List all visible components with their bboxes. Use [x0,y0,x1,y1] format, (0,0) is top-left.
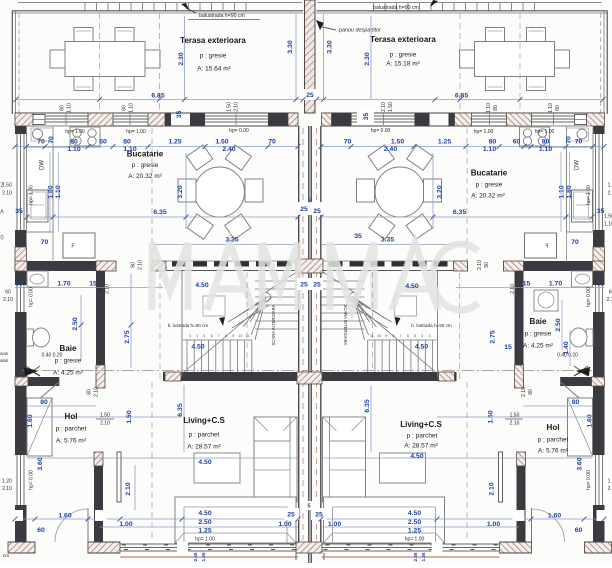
kitchen cabinet F [63,233,95,258]
upper stair flight treads behind beam [172,261,186,267]
svg-text:p : gresie: p : gresie [390,52,417,59]
svg-text:2.50: 2.50 [555,318,562,331]
svg-text:1.25: 1.25 [168,138,181,145]
svg-text:2.30: 2.30 [364,52,371,65]
kitchen chair top-right [225,145,251,170]
svg-text:1.20: 1.20 [608,478,612,484]
svg-text:80: 80 [121,105,127,111]
svg-text:1.80: 1.80 [47,185,54,198]
svg-text:6.35: 6.35 [453,209,466,216]
kitchen chair left [178,179,196,202]
north wall pier hatched 2 [148,113,165,126]
svg-text:Hol: Hol [547,423,560,432]
svg-text:Living+C.S: Living+C.S [183,416,225,425]
svg-text:1.60: 1.60 [27,414,34,427]
kitchen round table [195,167,245,217]
svg-text:hp= 0.00: hp= 0.00 [586,287,592,307]
svg-text:1.50: 1.50 [226,102,232,112]
svg-text:2.10: 2.10 [607,297,612,303]
bath washbasin counter [27,271,48,287]
hol fraction line [96,418,114,420]
svg-text:2.50: 2.50 [198,519,211,526]
mid band hatch block left of stairs [152,261,166,271]
svg-text:9: 9 [385,334,387,338]
svg-text:hp= 1.00: hp= 1.00 [405,536,425,542]
stair west boundary [181,271,183,377]
svg-text:70: 70 [268,138,276,145]
svg-text:4.50: 4.50 [191,343,204,350]
west wall segment below kitchen window [15,230,27,271]
party wall east leaf line [320,126,322,542]
svg-text:11: 11 [370,334,374,338]
north wall window 1 (kitchen) [45,115,90,117]
terrace balustrade top double line [12,10,303,12]
svg-text:4: 4 [196,334,198,338]
bath east wall hatch bottom [96,365,105,388]
svg-text:60: 60 [99,138,107,145]
svg-text:3.35: 3.35 [225,236,238,243]
bath door opening jambs [58,377,60,386]
watermark logo [152,243,478,310]
svg-text:A: 20.32 m²: A: 20.32 m² [471,193,505,200]
svg-text:3.30: 3.30 [287,40,294,53]
balustrade label arrow left [181,3,189,10]
left half geometry [8,3,303,558]
entry door opening [34,542,36,553]
svg-text:80: 80 [528,389,534,395]
dimension line living horizontal [27,457,298,459]
svg-text:p : parchet: p : parchet [56,426,87,433]
svg-text:1.60: 1.60 [586,414,593,427]
svg-text:p : gresie: p : gresie [200,53,227,60]
terrace chair bottom-left [74,77,93,91]
svg-text:60: 60 [513,138,521,145]
balustrade label arrow right [430,0,438,7]
dimension line terrace width [16,99,303,101]
svg-text:A: 20.32 m²: A: 20.32 m² [128,173,162,180]
svg-text:80: 80 [555,105,561,111]
svg-text:1.25: 1.25 [438,138,451,145]
party wall hatch at stair wall [297,372,322,384]
svg-text:hp= 0.00: hp= 0.00 [28,470,34,490]
kitchen sink [33,129,43,139]
terrace chair bottom-right [115,77,134,91]
svg-text:Terasa exterioara: Terasa exterioara [370,35,436,44]
svg-text:1.00: 1.00 [328,521,341,528]
svg-text:hp= 1.00: hp= 1.00 [474,129,494,135]
svg-text:3.60: 3.60 [37,457,44,470]
svg-text:15: 15 [504,344,512,351]
svg-text:80: 80 [572,399,580,406]
svg-text:Baie: Baie [530,317,547,326]
terrace left inner dashed line [18,13,20,113]
svg-text:2.30: 2.30 [178,52,185,65]
svg-text:1.10: 1.10 [486,103,492,113]
svg-text:2.10: 2.10 [93,387,99,397]
svg-text:60: 60 [37,527,45,534]
svg-text:8: 8 [393,334,395,338]
svg-text:hp= 1.00: hp= 1.00 [195,536,215,542]
svg-text:25: 25 [300,281,308,288]
dimension line kitchen interior width [27,216,298,218]
section cut dash-dot line [22,370,592,372]
svg-text:A: 15.64 m²: A: 15.64 m² [197,66,231,73]
south wall living window [120,543,298,545]
north wall band edges [15,112,298,114]
stub wall between hall and living [94,452,103,543]
svg-text:35: 35 [597,280,605,287]
bath right dim lines [561,300,563,350]
svg-text:90: 90 [484,262,490,268]
svg-text:hp= 0.00: hp= 0.00 [586,470,592,490]
dashed line kitchen axis [151,128,153,260]
north wall french door opening [205,115,268,117]
svg-text:1.00: 1.00 [487,521,500,528]
svg-text:Terasa exterioara: Terasa exterioara [180,36,246,45]
svg-text:2.50: 2.50 [408,519,421,526]
svg-text:b. lustrada h=90 cm: b. lustrada h=90 cm [168,323,209,328]
svg-text:15: 15 [523,280,531,287]
svg-text:1.50: 1.50 [100,412,110,418]
svg-text:80: 80 [40,399,48,406]
svg-text:4.50: 4.50 [195,282,208,289]
terrace chair top-right [115,28,134,42]
svg-text:70: 70 [48,136,55,144]
right half geometry mirrored [317,3,612,558]
south window sill dash marks [122,544,296,546]
svg-text:3.30: 3.30 [326,40,333,53]
svg-text:1.00: 1.00 [119,521,132,528]
svg-text:6: 6 [407,334,409,338]
svg-text:80: 80 [70,138,78,145]
svg-text:p : parchet: p : parchet [189,432,220,439]
svg-text:80: 80 [489,138,497,145]
svg-text:2.75: 2.75 [124,330,131,343]
svg-text:6.85: 6.85 [151,92,164,99]
north wall corner hatched block [15,113,33,126]
svg-text:A: 28.57 m²: A: 28.57 m² [187,444,221,451]
svg-text:6: 6 [211,334,213,338]
bath south wall hatch [15,377,28,386]
svg-text:80: 80 [59,105,65,111]
svg-text:3.20: 3.20 [436,185,443,198]
svg-text:2.10: 2.10 [125,482,132,495]
svg-text:DW: DW [40,160,46,170]
svg-text:2.40: 2.40 [222,146,235,153]
dimension line hol 1.50 [30,416,182,418]
svg-text:hp= 1.00: hp= 1.00 [586,185,592,205]
svg-text:hp= 0.00: hp= 0.00 [28,287,34,307]
red section trace below south wall [120,556,298,558]
svg-text:hp= 1.00: hp= 1.00 [65,129,85,135]
svg-text:10: 10 [238,334,242,338]
balustrade posts top [84,3,86,11]
svg-text:2.10: 2.10 [488,482,495,495]
vertical dim line living 6.35 [183,385,185,452]
svg-text:2.10: 2.10 [510,284,516,294]
dimension line bottom row 1 [15,518,298,520]
svg-text:35: 35 [15,280,23,287]
stair break lines [228,299,266,322]
svg-text:1.10: 1.10 [558,185,565,198]
coffee table [194,453,240,483]
svg-text:anis: anis [0,351,8,356]
svg-text:4.50: 4.50 [410,453,423,460]
svg-text:3.60: 3.60 [576,457,583,470]
stair tread numbers [189,334,431,338]
svg-text:60: 60 [575,527,583,534]
north wall gap with 35 [171,112,190,114]
svg-text:2.10: 2.10 [381,102,387,112]
svg-text:1.10: 1.10 [539,146,552,153]
svg-text:cm: cm [3,553,9,558]
svg-text:1.60: 1.60 [548,512,561,519]
svg-text:35: 35 [354,233,362,240]
kitchen chair right [245,179,263,202]
svg-text:1.50: 1.50 [510,412,520,418]
svg-text:2.50: 2.50 [413,552,418,561]
svg-text:1.25: 1.25 [408,527,421,534]
vertical dim line living 2.10 [134,465,136,510]
svg-text:80: 80 [493,105,499,111]
svg-text:80: 80 [542,138,550,145]
stair south wall hatch [165,372,181,381]
svg-text:1.25: 1.25 [201,552,206,561]
balustrada label underlines [188,19,260,21]
svg-text:70: 70 [37,138,45,145]
svg-text:p : gresie: p : gresie [55,358,82,365]
svg-text:Bucatarie: Bucatarie [471,169,508,178]
svg-text:35: 35 [363,113,370,121]
kitchen chair bottom-left [187,214,213,239]
stair direction arrow [219,317,225,326]
terrace divider wall panou despartitor [305,0,316,113]
bath south wall [15,377,59,386]
svg-text:Hol: Hol [65,412,78,421]
stair lower flight treads [186,340,188,372]
corridor dashed line [159,273,161,380]
svg-text:A: 5.76 m²: A: 5.76 m² [538,448,569,455]
stair landing rect [203,296,225,316]
svg-text:6.35: 6.35 [364,399,371,412]
svg-text:2.50: 2.50 [193,552,198,561]
party wall insulation dashed lines [302,128,304,540]
svg-text:35: 35 [15,208,23,215]
svg-text:1.10: 1.10 [548,103,554,113]
mid band bath top wall [15,261,96,271]
north wall window 2 [113,115,148,117]
svg-text:1.25: 1.25 [421,552,426,561]
stair south wall [163,372,298,381]
terrace chair left [50,50,65,68]
svg-text:1.25: 1.25 [198,527,211,534]
svg-text:1.50: 1.50 [608,182,612,188]
svg-text:70: 70 [575,138,583,145]
svg-text:4: 4 [421,334,423,338]
svg-text:4.50: 4.50 [198,510,211,517]
mid band door opening frame [115,261,117,271]
svg-text:2.10: 2.10 [608,486,612,492]
svg-text:0.40 0.20: 0.40 0.20 [557,352,578,358]
svg-text:15: 15 [89,280,97,287]
vertical dim line bath 2.50 [80,295,82,360]
svg-text:70: 70 [571,239,579,246]
section marker X west [26,366,40,376]
north wall pier hatched [88,113,113,126]
svg-text:1.10: 1.10 [128,103,134,113]
svg-text:2.10: 2.10 [477,260,483,270]
svg-text:0.40 0.20: 0.40 0.20 [42,352,63,358]
mid band pier hatched right of bath [96,261,116,271]
north wall lintel block [33,115,45,125]
svg-text:balustrada h=90 cm: balustrada h=90 cm [373,5,419,11]
svg-text:DW: DW [575,160,581,170]
svg-text:2.10: 2.10 [3,297,13,303]
terrace chair right [145,50,160,68]
svg-text:A: 5.76 m²: A: 5.76 m² [56,438,87,445]
party wall middle double line [308,126,310,542]
svg-text:6.35: 6.35 [177,403,184,416]
svg-text:1.20: 1.20 [2,478,12,484]
svg-text:2.10: 2.10 [233,102,239,112]
south wall pier hatched [88,542,120,553]
svg-text:5: 5 [203,334,205,338]
bath toilet [27,329,34,346]
svg-text:1.50: 1.50 [604,213,612,219]
svg-text:4.50: 4.50 [408,510,421,517]
stair long diagonal [184,297,272,372]
svg-text:p : gresie: p : gresie [525,331,552,338]
section marker west [24,367,38,376]
white chips behind wall dims [303,89,317,100]
kitchen hob with burners [70,127,100,146]
party wall hatch at kitchen band [296,259,323,273]
svg-text:80: 80 [86,389,92,395]
svg-text:SCARA INTERIOARA: SCARA INTERIOARA [343,305,348,346]
west wall upper segment [15,126,27,134]
west wall hol window [16,455,18,505]
kitchen tall unit fridge [27,190,48,222]
panou despartitor arrow [316,20,324,30]
svg-text:3.20: 3.20 [177,185,184,198]
svg-text:2.40: 2.40 [384,146,397,153]
vertical dim line kitchen 3.20 [185,153,187,229]
party wall hatch at south band [296,542,322,553]
svg-text:2.50: 2.50 [72,317,79,330]
north wall pier dark [190,113,205,126]
dimension line bottom row 2 [100,526,298,528]
svg-text:hp= 1.00: hp= 1.00 [535,129,555,135]
svg-text:4.50: 4.50 [198,459,211,466]
bath door leaf diagonal [31,382,59,406]
svg-text:SCARA INTERIOARA: SCARA INTERIOARA [271,304,276,345]
terrace vertical dim lines [184,16,186,99]
dimension line kitchen top row [15,146,298,148]
svg-text:1.10: 1.10 [66,103,72,113]
svg-text:2.10: 2.10 [521,387,527,397]
svg-text:p : parchet: p : parchet [538,437,569,444]
svg-text:A: 4.25 m²: A: 4.25 m² [523,343,554,350]
section marker east [576,367,590,376]
svg-text:2.10: 2.10 [608,190,612,196]
svg-text:1.50: 1.50 [126,410,133,423]
svg-text:90: 90 [130,262,136,268]
dashed separator hol-living [151,382,153,540]
svg-text:5: 5 [307,503,310,509]
svg-text:hp= 0.00: hp= 0.00 [229,128,249,134]
living bottom sofa [175,497,296,543]
stair winder treads fan [262,293,271,302]
svg-text:10: 10 [377,334,381,338]
svg-text:1.60: 1.60 [58,512,71,519]
svg-text:70: 70 [565,136,572,144]
stair upper flight treads along party wall [255,280,298,282]
svg-text:9: 9 [232,334,234,338]
svg-text:4.50: 4.50 [415,343,428,350]
svg-text:1.50: 1.50 [215,138,228,145]
kitchen counter top run [27,126,101,147]
svg-text:p : gresie: p : gresie [132,162,159,169]
kitchen chair bottom-right [225,214,251,239]
svg-text:panou despartitor: panou despartitor [338,27,381,33]
dimension line kitchen 3.35 [152,244,298,246]
svg-text:5: 5 [308,198,311,204]
kitchen chair top-left [187,145,213,170]
stub wall hatch top [94,452,103,466]
svg-text:alati: alati [0,358,8,363]
svg-text:2.10: 2.10 [2,486,12,492]
svg-text:80: 80 [97,286,103,292]
svg-text:25: 25 [300,206,308,213]
svg-text:hp= 1.00: hp= 1.00 [28,185,34,205]
svg-text:6.35: 6.35 [153,209,166,216]
west wall bath segment [15,271,27,285]
svg-text:3: 3 [189,334,191,338]
svg-text:1.00: 1.00 [278,521,291,528]
svg-text:1.50: 1.50 [391,138,404,145]
svg-text:Living+C.S: Living+C.S [400,420,442,429]
section marker X east [574,366,588,376]
svg-text:70: 70 [41,239,49,246]
svg-text:2.10: 2.10 [2,190,12,196]
party wall stub below south band [308,553,310,563]
tv panel [117,452,121,502]
svg-text:60: 60 [5,289,11,295]
svg-text:80: 80 [123,138,131,145]
svg-text:balustrada h=90 cm: balustrada h=90 cm [199,13,245,19]
svg-text:3.35: 3.35 [381,236,394,243]
svg-text:25: 25 [287,511,295,518]
terrace dining table [65,42,145,77]
svg-text:2.10: 2.10 [104,284,110,294]
mid band hatch west end [15,261,27,271]
terrace dashed axis lines [99,13,101,112]
svg-text:70: 70 [344,138,352,145]
svg-text:1.10: 1.10 [604,221,612,227]
terrace balustrade outer top line [18,2,302,4]
west wall hatch near mid band [15,247,27,271]
dimension line bath row [15,287,163,289]
svg-text:2.10: 2.10 [100,420,110,426]
svg-text:p : gresie: p : gresie [476,182,503,189]
svg-text:b. lustrada h=90 cm: b. lustrada h=90 cm [411,323,452,328]
living dim line right mirror [437,416,590,418]
svg-text:p : parchet: p : parchet [407,433,438,440]
sofa [254,417,297,502]
hall wardrobe [27,398,52,456]
svg-text:1.10: 1.10 [483,146,496,153]
party wall west leaf line [298,126,300,542]
